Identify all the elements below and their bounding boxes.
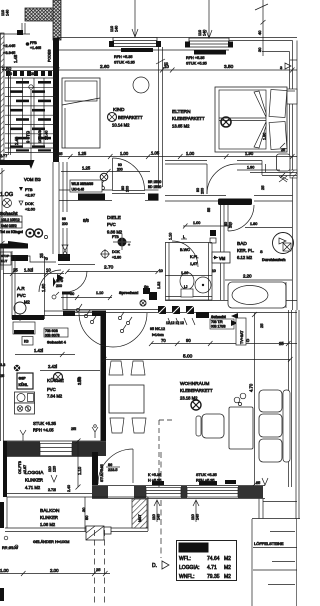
svg-text:5.00: 5.00: [183, 354, 193, 360]
svg-text:RFH +5.35: RFH +5.35: [196, 479, 214, 483]
arrow wedge: [8, 241, 28, 246]
svg-text:KLEBEPARKETT: KLEBEPARKETT: [180, 388, 213, 393]
lamp KIND: [108, 113, 117, 122]
svg-text:10: 10: [212, 269, 216, 273]
svg-text:B.WC: B.WC: [180, 248, 190, 252]
svg-text:K +5.35: K +5.35: [148, 473, 161, 477]
svg-text:12 12 12 12: 12 12 12 12: [166, 321, 184, 325]
door WC: [172, 241, 198, 267]
klingel circles: [26, 229, 34, 237]
radiators wohnraum: [152, 481, 164, 485]
svg-text:RFH +5.35: RFH +5.35: [114, 55, 132, 59]
wall kueche south + loggia top: [3, 440, 106, 442]
electrical bad: [210, 230, 216, 236]
armchair: [202, 414, 224, 438]
svg-text:BD 15/20: BD 15/20: [148, 185, 162, 189]
wall bad north: [165, 195, 226, 197]
svg-text:110: 110: [152, 514, 156, 520]
switch symbols diele: [76, 308, 79, 311]
svg-text:10: 10: [159, 269, 163, 273]
svg-text:+2.60: +2.60: [25, 207, 36, 212]
svg-text:80: 80: [224, 222, 228, 226]
window wohnraum 2: [187, 488, 238, 498]
wall AR west: [11, 251, 13, 319]
svg-text:WOHNRAUM: WOHNRAUM: [180, 381, 209, 387]
svg-text:70: 70: [161, 338, 166, 343]
valve symbol: [62, 245, 68, 256]
bottom dim: [0, 573, 110, 575]
BOTTOM: [0, 361, 297, 606]
svg-text:STUK +5.35: STUK +5.35: [114, 61, 135, 65]
svg-text:3.30: 3.30: [77, 376, 82, 385]
svg-text:25: 25: [260, 185, 265, 190]
chairs top: [109, 361, 123, 375]
lamp schacht: [3, 199, 12, 208]
5.00 dim: [104, 359, 290, 361]
svg-text:FTB: FTB: [25, 187, 33, 192]
svg-text:KLEBEPARKETT: KLEBEPARKETT: [172, 116, 205, 121]
basin WC circle: [195, 277, 211, 293]
door balkon: [132, 449, 134, 483]
wall eltern south: [165, 160, 207, 162]
ROOMS: [0, 77, 294, 441]
svg-text:96: 96: [62, 217, 66, 221]
wall top hatched band: [25, 8, 60, 21]
svg-text:1.90: 1.90: [245, 151, 254, 156]
svg-text:LJ: LJ: [184, 285, 188, 289]
svg-text:KER. PL.: KER. PL.: [237, 248, 254, 253]
svg-text:FFB: FFB: [30, 41, 37, 45]
svg-text:110: 110: [1, 10, 5, 16]
svg-text:VM: VM: [219, 256, 226, 261]
svg-text:2.42l: 2.42l: [48, 364, 57, 369]
svg-text:Sprechanl: Sprechanl: [119, 290, 138, 295]
dashed layout line: [159, 420, 172, 487]
step edge: [8, 256, 56, 262]
wall north exterior: [57, 37, 297, 39]
svg-text:KS: KS: [24, 340, 29, 344]
wall loggia west: [3, 441, 7, 497]
bed ELTERN: [215, 87, 287, 152]
svg-text:110: 110: [198, 30, 202, 36]
svg-text:00B 170/8: 00B 170/8: [211, 325, 226, 329]
schacht block wohnraum: [196, 312, 209, 318]
svg-text:RFH +5.35: RFH +5.35: [186, 56, 204, 60]
dim 4.70 line: [254, 313, 256, 485]
svg-text:9.86 M2: 9.86 M2: [107, 230, 123, 235]
svg-text:1.90: 1.90: [263, 133, 267, 140]
door AR arc: [66, 271, 87, 292]
svg-text:140: 140: [115, 26, 119, 32]
svg-text:70B 60/8: 70B 60/8: [45, 329, 58, 333]
svg-text:1.10: 1.10: [96, 291, 103, 295]
svg-text:25: 25: [39, 253, 44, 258]
svg-text:3.3: 3.3: [0, 363, 5, 367]
svg-text:1.10: 1.10: [181, 271, 188, 275]
svg-text:DOK: DOK: [112, 250, 120, 254]
svg-text:25: 25: [281, 148, 285, 152]
svg-text:50: 50: [70, 292, 74, 296]
svg-text:PVC: PVC: [17, 293, 26, 298]
shelf AR: [13, 322, 35, 334]
washer AR: [14, 302, 26, 314]
flowers: [234, 397, 240, 403]
eltern bottom dims: [150, 156, 297, 158]
svg-text:7.84 M2: 7.84 M2: [47, 394, 63, 399]
svg-text:1.42l: 1.42l: [34, 348, 43, 353]
svg-text:55: 55: [207, 208, 211, 212]
svg-text:+1.465: +1.465: [30, 46, 41, 50]
svg-text:OK.FTB: OK.FTB: [18, 460, 22, 474]
svg-text:Schacht: Schacht: [211, 315, 227, 319]
svg-text:UK+6.45: UK+6.45: [72, 188, 85, 192]
STAIR: [0, 10, 68, 292]
stair stringers: [8, 70, 10, 155]
svg-text:80: 80: [121, 186, 125, 190]
window KIND: [113, 38, 157, 47]
svg-text:1.00: 1.00: [186, 151, 195, 156]
loeffelsteine: [251, 519, 253, 606]
svg-text:A.R: A.R: [17, 286, 25, 291]
wall garden double east: [288, 310, 290, 487]
antenna symbols: [92, 427, 98, 438]
schacht4 kueche: [44, 328, 68, 337]
wall kueche east: [101, 312, 107, 441]
svg-text:25: 25: [279, 341, 284, 346]
svg-text:200: 200: [56, 284, 62, 288]
svg-text:M2: M2: [224, 565, 231, 571]
lamp ELTERN: [221, 117, 231, 127]
lamp kueche: [54, 373, 63, 382]
svg-text:120: 120: [53, 466, 57, 472]
svg-text:MST: MST: [138, 514, 142, 522]
svg-text:10: 10: [8, 72, 12, 76]
svg-text:l=14cm: l=14cm: [152, 333, 164, 337]
svg-text:1.00: 1.00: [193, 221, 200, 225]
svg-text:1.06 M2: 1.06 M2: [40, 522, 56, 527]
upper landing lines: [0, 33, 30, 35]
sliding elements: [158, 306, 166, 314]
svg-text:STUK+5.35: STUK+5.35: [100, 464, 104, 482]
svg-text:2.40: 2.40: [67, 485, 71, 492]
svg-text:S: S: [260, 249, 263, 254]
wall stair east top: [53, 0, 61, 40]
svg-text:2.60: 2.60: [100, 64, 110, 70]
stair arrow: [29, 85, 33, 89]
top right vertical dim: [262, 0, 264, 36]
svg-text:200: 200: [201, 188, 205, 194]
wall AR north: [0, 244, 28, 249]
sofa: [283, 390, 290, 462]
svg-text:200: 200: [126, 186, 130, 192]
svg-text:1.48: 1.48: [13, 54, 18, 63]
lamp diele door: [100, 173, 108, 181]
dashed lines bottom: [94, 530, 96, 606]
svg-text:40: 40: [257, 30, 262, 35]
toilet WC: [180, 273, 194, 290]
wall diele west: [62, 162, 64, 212]
svg-text:6.12 M2: 6.12 M2: [237, 255, 253, 260]
door ELTERN: [206, 164, 208, 194]
svg-text:+2.87: +2.87: [23, 465, 27, 474]
svg-text:1.25: 1.25: [78, 151, 87, 156]
svg-text:GSP: GSP: [19, 377, 27, 381]
svg-text:86: 86: [108, 463, 112, 467]
svg-text:1.70: 1.70: [56, 279, 63, 283]
wall east: [289, 52, 291, 161]
svg-text:2.20: 2.20: [243, 274, 252, 279]
svg-text:16.39/30: 16.39/30: [38, 128, 42, 143]
door KIND: [112, 158, 114, 190]
kitchen counter: [17, 373, 33, 389]
svg-text:BALKON: BALKON: [40, 508, 60, 514]
radiator ELTERN: [194, 50, 226, 55]
svg-text:+: +: [128, 243, 130, 247]
svg-text:LOGGIA:: LOGGIA:: [179, 565, 200, 571]
svg-text:KLINKER: KLINKER: [25, 478, 43, 483]
svg-text:GELÄNDER H=100M: GELÄNDER H=100M: [33, 540, 69, 544]
svg-text:2.70: 2.70: [104, 265, 114, 271]
svg-text:K.PL: K.PL: [190, 255, 198, 259]
svg-text:00B 60/78: 00B 60/78: [45, 334, 60, 338]
top dim line: [57, 69, 297, 71]
svg-text:1,67: 1,67: [190, 262, 197, 266]
svg-text:ELTERN: ELTERN: [172, 109, 191, 115]
svg-text:+2.445: +2.445: [3, 43, 16, 48]
svg-text:Go: Go: [144, 285, 149, 289]
svg-text:M2: M2: [224, 574, 231, 580]
wall landing: [0, 160, 32, 165]
radiator KIND: [121, 48, 153, 52]
svg-text:STUK +5.35: STUK +5.35: [33, 421, 57, 426]
wall diele west stair side: [52, 162, 54, 254]
svg-text:D.: D.: [152, 563, 157, 569]
lamp wohnraum: [191, 400, 201, 410]
svg-text:RPH +4.05: RPH +4.05: [33, 428, 54, 433]
wall kueche north: [12, 315, 44, 320]
svg-text:1.32l: 1.32l: [24, 268, 33, 273]
svg-text:TV+SAT: TV+SAT: [240, 330, 244, 344]
svg-text:25l: 25l: [71, 427, 76, 431]
svg-text:WNFL:: WNFL:: [179, 574, 195, 580]
svg-text:Tel zu Klingel: Tel zu Klingel: [0, 230, 23, 234]
door wohnraum arc: [79, 313, 147, 347]
chairs bottom: [110, 418, 124, 433]
svg-text:WFL:: WFL:: [179, 556, 191, 562]
wall stair east: [53, 38, 59, 162]
svg-text:30: 30: [257, 47, 262, 52]
closet boiler eltern: [277, 154, 291, 171]
svg-text:BEPARKETT: BEPARKETT: [118, 115, 143, 120]
svg-text:90: 90: [118, 163, 122, 167]
coffee table: [229, 407, 253, 449]
svg-text:KÜHL: KÜHL: [19, 382, 28, 387]
black bars west edge: [0, 502, 4, 528]
svg-text:PODES: PODES: [48, 49, 52, 62]
svg-text:10: 10: [46, 268, 51, 273]
svg-text:9 STG: 9 STG: [26, 131, 31, 143]
svg-text:25: 25: [58, 151, 63, 156]
svg-text:PVC: PVC: [47, 387, 56, 392]
hatch east wall: [290, 170, 297, 178]
svg-text:.10: .10: [163, 64, 169, 69]
svg-text:1.90: 1.90: [247, 166, 254, 170]
svg-text:WLE 35/10/35: WLE 35/10/35: [72, 182, 94, 186]
svg-text:1.80: 1.80: [250, 222, 257, 226]
KS box: [22, 337, 33, 346]
svg-text:DOK: DOK: [25, 201, 34, 206]
svg-text:4.71 M2: 4.71 M2: [25, 485, 41, 490]
VM box: [212, 252, 230, 263]
svg-text:2.77: 2.77: [0, 154, 7, 158]
svg-text:10.14 M2: 10.14 M2: [112, 123, 130, 128]
info box: [177, 541, 237, 581]
svg-text:H +5.35: H +5.35: [148, 479, 161, 483]
wall wohnraum south: [92, 485, 265, 487]
svg-text:8/8: 8/8: [83, 218, 89, 223]
symbol ba kueche: [14, 365, 20, 371]
svg-text:M2: M2: [224, 556, 231, 562]
svg-text:LOGGIA: LOGGIA: [25, 470, 44, 476]
svg-text:140: 140: [6, 10, 10, 16]
bed KIND: [62, 78, 100, 148]
svg-text:25: 25: [259, 323, 264, 328]
svg-text:16.40: 16.40: [45, 130, 49, 140]
svg-text:Schacht 4: Schacht 4: [47, 340, 67, 345]
svg-text:200: 200: [117, 168, 123, 172]
svg-text:1.05: 1.05: [151, 151, 160, 156]
kind bottom dims: [57, 156, 150, 158]
svg-text:DIELE: DIELE: [107, 215, 121, 221]
svg-text:1.20: 1.20: [28, 72, 35, 76]
svg-text:KLINKER: KLINKER: [40, 515, 58, 520]
wall stair west: [1, 33, 5, 160]
svg-text:Durchlauferh: Durchlauferh: [262, 258, 286, 262]
svg-text:1.60: 1.60: [41, 283, 46, 292]
svg-text:25: 25: [0, 374, 4, 378]
wall wohnraum north: [165, 300, 297, 302]
left dim line: [1, 168, 3, 270]
DOK diele: [102, 251, 109, 258]
svg-text:BAD: BAD: [237, 241, 247, 247]
svg-text:25: 25: [256, 481, 260, 485]
svg-text:110: 110: [48, 466, 52, 472]
wall AR/diele: [62, 292, 64, 310]
svg-text:90: 90: [196, 188, 200, 192]
WLE box: [70, 180, 102, 192]
svg-text:M2: M2: [24, 300, 30, 305]
plant KIND: [133, 77, 149, 93]
svg-text:STUK +5.35: STUK +5.35: [186, 62, 207, 66]
svg-text:1.00: 1.00: [0, 568, 9, 573]
dining table: [109, 385, 144, 413]
svg-text:4.70: 4.70: [249, 383, 254, 392]
svg-text:1.25: 1.25: [82, 166, 91, 171]
bathtub: [228, 282, 286, 308]
svg-text:110: 110: [110, 26, 114, 32]
svg-text:1.32: 1.32: [157, 282, 161, 289]
svg-text:95 NK.12: 95 NK.12: [150, 327, 165, 331]
svg-text:4.71: 4.71: [207, 565, 217, 571]
durchlauferhitzer: [273, 233, 294, 254]
svg-text:3.50: 3.50: [224, 64, 234, 70]
wall divider kind/eltern: [158, 47, 160, 187]
svg-text:223.5: 223.5: [108, 468, 118, 472]
svg-text:79.35: 79.35: [207, 574, 220, 580]
svg-text:2.00: 2.00: [50, 568, 59, 573]
MST column: [132, 499, 147, 528]
svg-text:LÖFFELSTEINE: LÖFFELSTEINE: [254, 541, 284, 546]
corner box balkon: [86, 526, 104, 540]
svg-text:VOM EG: VOM EG: [24, 177, 41, 182]
svg-text:Schacht: Schacht: [0, 211, 18, 216]
wall corner diele sw: [58, 254, 70, 261]
svg-text:1.00: 1.00: [120, 151, 129, 156]
baluster strip upper flight: [6, 71, 10, 76]
svg-text:PVC: PVC: [107, 222, 116, 227]
tv sat: [236, 318, 246, 345]
wall loggia/wohnraum: [92, 452, 98, 485]
wall bad west: [220, 201, 222, 300]
svg-text:STUK +5.35: STUK +5.35: [196, 473, 217, 477]
svg-text:13.65 M2: 13.65 M2: [172, 124, 190, 129]
svg-text:UeM 025/2: UeM 025/2: [1, 224, 17, 228]
svg-text:2.72l: 2.72l: [48, 488, 56, 492]
svg-text:1.10: 1.10: [169, 233, 173, 240]
svg-text:2.40: 2.40: [14, 136, 19, 145]
lamp FTB diele: [118, 238, 127, 247]
wall kind south: [59, 189, 112, 191]
svg-text:+2.80: +2.80: [112, 256, 121, 260]
WC room walls: [165, 242, 167, 300]
wall west lower: [0, 245, 2, 441]
svg-text:+3.945: +3.945: [3, 50, 16, 55]
window wohnraum 1: [146, 488, 181, 498]
corner SE building: [258, 499, 260, 519]
svg-text:FTB: FTB: [112, 235, 119, 239]
svg-text:KIND: KIND: [113, 107, 125, 113]
svg-text:+2.97: +2.97: [25, 193, 36, 198]
door BAD: [227, 205, 229, 231]
svg-text:25: 25: [96, 567, 101, 572]
svg-text:70B T/R: 70B T/R: [211, 320, 223, 324]
window ELTERN: [189, 38, 229, 47]
tread nosing dashes: [10, 81, 51, 152]
stair treads: [5, 78, 56, 153]
svg-text:102.2 105/12: 102.2 105/12: [1, 218, 20, 222]
label waschtisch black: [218, 199, 252, 206]
svg-text:90: 90: [186, 338, 191, 343]
niche ELTERN: [283, 89, 297, 104]
svg-text:200: 200: [62, 222, 68, 226]
svg-text:L: L: [183, 235, 185, 239]
svg-text:BR 15/20: BR 15/20: [148, 180, 162, 184]
svg-text:74.64: 74.64: [207, 556, 220, 562]
DIMS: [55, 0, 297, 512]
svg-text:110: 110: [191, 514, 195, 520]
